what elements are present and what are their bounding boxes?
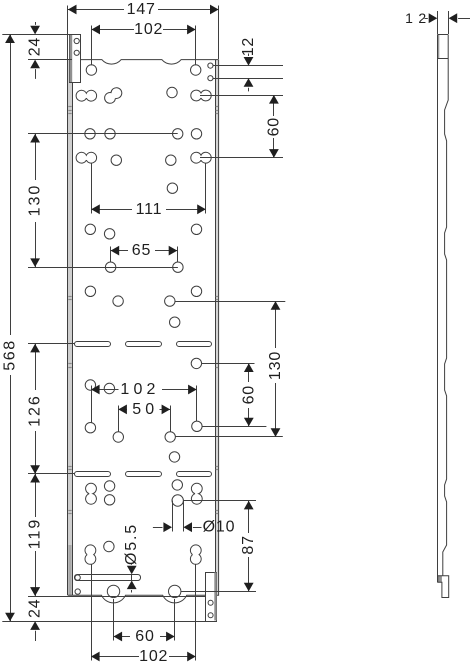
hole Ø10 at 171,160	[166, 155, 176, 165]
hole Ø10 at 109,388	[104, 383, 114, 393]
dimension diameter 5.5	[123, 523, 140, 592]
hole Ø10 at 197,426	[192, 421, 202, 431]
left edge weld tick 5	[68, 299, 71, 301]
double hole vertical right upper	[191, 483, 202, 504]
top tab hole lower	[74, 50, 79, 55]
extension 102mid left	[91, 386, 93, 423]
right edge weld tick 7	[216, 367, 219, 369]
tab top reference line	[2, 34, 81, 36]
dimension 568 overall height	[2, 34, 19, 621]
hole Ø12 at 114,591	[107, 585, 119, 597]
slot row2 reference line	[28, 473, 75, 475]
hole Ø10 at 196,229	[191, 224, 201, 234]
hole Ø10 at 196,134	[191, 129, 201, 139]
row 133 reference line	[28, 133, 178, 135]
hole Ø5 at 210,66	[208, 63, 213, 68]
hole Ø10 at 90,229	[85, 224, 95, 234]
right edge weld tick 9	[216, 469, 219, 471]
extension 65 right	[177, 247, 179, 263]
left edge weld tick 9	[68, 469, 71, 471]
svg-text:130: 130	[27, 184, 44, 217]
left edge weld tick 1	[68, 106, 71, 108]
svg-text:102: 102	[134, 21, 163, 38]
hole Ø10 at 196,363	[191, 358, 201, 368]
leader right pair row D	[200, 157, 283, 159]
hole Ø10 at 178,134	[173, 129, 183, 139]
left edge weld tick 8	[68, 466, 71, 468]
right edge weld tick 2	[216, 110, 219, 112]
extension 111 left	[91, 164, 93, 214]
dimension 60 top right	[265, 95, 282, 158]
leader bottom circle row	[181, 591, 256, 593]
leader small hole upper right	[213, 65, 283, 67]
left edge flange shading	[68, 60, 72, 596]
extension 60bottom left	[113, 599, 115, 641]
top left wall tab	[70, 35, 81, 83]
svg-text:50: 50	[132, 401, 158, 418]
hole Ø10 at 110,486	[104, 481, 114, 491]
leader hole 169,301	[175, 301, 285, 303]
right edge weld tick 4	[216, 296, 219, 298]
hole Ø10 at 178,267	[173, 262, 183, 272]
plate left inner fold line	[72, 83, 74, 596]
dimension 126 left	[27, 344, 44, 474]
hole Ø10 at 90,428	[85, 423, 95, 433]
slot cap circle	[75, 575, 80, 580]
narrow slot bottom left	[75, 575, 141, 581]
svg-text:60: 60	[240, 385, 257, 404]
hole Ø10 at 110,134	[105, 129, 115, 139]
dimension 24 bottom	[27, 582, 44, 641]
top tab hole upper	[74, 38, 79, 43]
extension 50 right	[170, 406, 172, 432]
dimension 24 top	[27, 22, 44, 79]
svg-text:87: 87	[240, 535, 257, 554]
hole Ø10 at 91,70	[86, 65, 96, 75]
hole Ø10 at 116,160	[111, 155, 121, 165]
hole Ø10 at 90,385	[85, 380, 95, 390]
dimension 147 overall width	[68, 1, 219, 18]
hole Ø5 at 210,78	[208, 76, 213, 81]
extension 147 right	[218, 6, 220, 60]
dimension 102 bottom	[91, 648, 196, 665]
hole Ø10 at 111,267	[105, 262, 115, 272]
dimension 102 middle	[91, 381, 197, 398]
plate bottom reference line	[28, 596, 206, 598]
hole Ø10 at 118,301	[113, 296, 123, 306]
double hole vertical right lower	[190, 545, 201, 564]
double hole row B right	[191, 90, 211, 101]
dimension diameter 10	[153, 519, 235, 536]
svg-text:24: 24	[27, 599, 44, 618]
slot row2 #1	[75, 472, 111, 477]
hole Ø10 at 196,291	[191, 286, 201, 296]
hole Ø10 at 110,500	[104, 495, 114, 505]
plate top reference line left	[28, 59, 72, 61]
extension 50 left	[118, 406, 120, 432]
svg-text:130: 130	[267, 351, 284, 380]
side view bottom tab	[438, 576, 449, 598]
hole Ø10 at 90,134	[85, 129, 95, 139]
extension 111 right	[205, 164, 207, 214]
right edge weld tick 11	[216, 513, 219, 515]
left edge weld tick 4	[68, 296, 71, 298]
left edge weld tick 11	[68, 513, 71, 515]
slot row1 #3	[177, 342, 212, 347]
slot row1 #1	[75, 342, 111, 347]
extension dia10 right	[183, 501, 185, 532]
double hole row B left	[76, 90, 97, 101]
left edge weld tick 3	[68, 113, 71, 115]
plate right outer edge	[217, 60, 219, 596]
extension 65 left	[110, 247, 112, 263]
dimension 130 left	[27, 134, 44, 267]
leader right pair row B	[200, 95, 283, 97]
front view mounting plate body	[68, 60, 219, 603]
left edge weld tick 2	[68, 110, 71, 112]
svg-text:119: 119	[27, 518, 44, 550]
slot row1 reference line	[28, 343, 75, 345]
leader hole 196,363	[202, 363, 255, 365]
row 267 reference line	[28, 267, 178, 269]
extension 102bottom left	[91, 565, 93, 661]
hole Ø10 at 118,437	[113, 432, 123, 442]
hole Ø10 at 196,70	[191, 65, 201, 75]
svg-text:24: 24	[27, 37, 44, 56]
extension 102top right	[195, 26, 197, 66]
hole Ø5 at 78,592	[75, 589, 80, 594]
hole Ø10 at 172,92	[167, 87, 177, 97]
slot row2 #2	[126, 472, 162, 477]
dimension 65	[111, 242, 178, 259]
hole Ø10 at 174,457	[169, 452, 179, 462]
bottom right wall tab	[206, 573, 217, 622]
hole Ø10 at 109,546	[104, 541, 114, 551]
right edge flange shading	[215, 60, 218, 596]
right edge weld tick 3	[216, 113, 219, 115]
leader hole 177,500	[183, 500, 256, 502]
svg-text:102: 102	[120, 381, 159, 398]
svg-text:568: 568	[2, 339, 19, 371]
hole Ø10 at 170,301	[165, 296, 175, 306]
svg-text:60: 60	[135, 628, 154, 645]
svg-text:102: 102	[139, 648, 168, 665]
right edge weld tick 1	[216, 106, 219, 108]
extension 60bottom right	[174, 599, 176, 641]
leader hole 170,437	[175, 436, 282, 438]
left edge weld tick 6	[68, 363, 71, 365]
dimension 87 right	[240, 501, 257, 592]
dimension 130 right	[267, 301, 284, 437]
double hole row B diagonal	[105, 88, 122, 104]
svg-text:147: 147	[127, 1, 156, 18]
dimension 60 mid right	[240, 363, 257, 426]
slot row1 #2	[126, 342, 162, 347]
hole Ø11 at 178,500	[172, 495, 183, 506]
side view profile	[437, 35, 448, 583]
left edge weld tick 7	[68, 367, 71, 369]
extension 147 left	[67, 6, 69, 60]
hole Ø10 at 175,322	[170, 317, 180, 327]
dimension 50	[118, 401, 170, 418]
dimension 12 top right	[240, 37, 257, 92]
dimension 102 top	[91, 21, 195, 38]
bottom tab hole upper	[208, 600, 213, 605]
double hole row D right	[191, 152, 211, 163]
tab bottom reference line	[2, 621, 217, 623]
leader hole 196,426	[202, 426, 266, 428]
extension 102top left	[91, 26, 93, 66]
svg-text:111: 111	[136, 201, 163, 218]
slot row2 #3	[177, 472, 212, 477]
double hole vertical left lower	[85, 545, 96, 564]
left edge weld tick 10	[68, 510, 71, 512]
extension dia10 left	[172, 501, 174, 532]
hole Ø10 at 110,234	[104, 229, 114, 239]
svg-text:Ø10: Ø10	[203, 519, 236, 536]
dimension 12 side view	[405, 10, 470, 34]
plate bottom edge with two bumps	[68, 595, 206, 603]
hole Ø10 at 177,485	[172, 480, 182, 490]
svg-text:126: 126	[27, 394, 44, 427]
leader small hole lower right	[213, 78, 283, 80]
svg-text:65: 65	[132, 242, 151, 259]
plate left outer edge	[67, 60, 69, 596]
plate right inner fold line	[215, 60, 217, 596]
right edge weld tick 5	[216, 299, 219, 301]
svg-text:12: 12	[240, 37, 257, 56]
left edge lower dark shading	[68, 545, 71, 595]
plate top edge with notches	[81, 60, 219, 65]
hole Ø12 at 175,591	[169, 585, 181, 597]
right edge weld tick 10	[216, 510, 219, 512]
hole Ø10 at 170,437	[165, 432, 175, 442]
right edge weld tick 6	[216, 363, 219, 365]
svg-text:60: 60	[265, 117, 282, 136]
extension 102mid right	[196, 386, 198, 422]
hole Ø10 at 90,291	[85, 286, 95, 296]
dimension 111	[91, 201, 206, 218]
dimension 60 bottom	[114, 628, 175, 645]
bottom tab hole lower	[208, 613, 213, 618]
hole Ø10 at 172,188	[167, 183, 177, 193]
double hole row D left	[76, 152, 97, 163]
extension 102bottom right	[195, 565, 197, 661]
svg-text:1 2: 1 2	[405, 10, 427, 26]
dimension 119 left	[27, 474, 44, 596]
double hole vertical left upper	[86, 483, 97, 504]
svg-text:Ø5.5: Ø5.5	[123, 523, 140, 565]
right edge weld tick 8	[216, 466, 219, 468]
